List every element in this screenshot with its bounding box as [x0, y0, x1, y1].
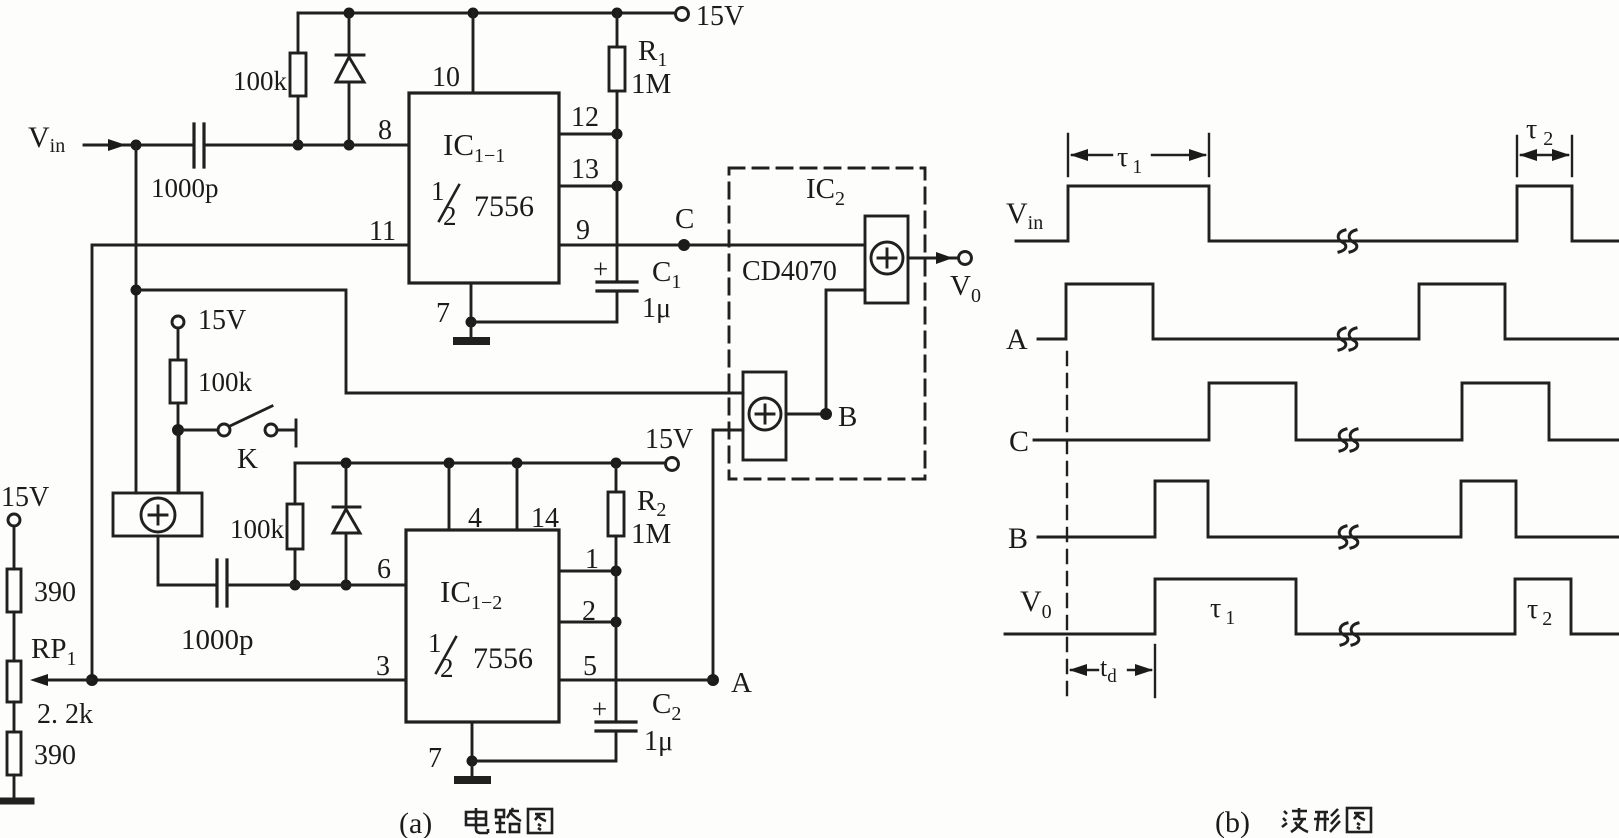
svg-text:τ2: τ2 [1527, 594, 1552, 630]
wire R5 to pin6 wire [294, 549, 297, 585]
wire RP1 wiper [38, 679, 92, 682]
wire rail2 to diode D2 [345, 463, 348, 507]
IC2 dashed package [729, 168, 925, 479]
IC U1a body [409, 93, 559, 283]
svg-text:15V: 15V [645, 424, 693, 455]
dimension tau1 arrows [1070, 149, 1088, 161]
node pin2/C2 [611, 617, 622, 628]
dimension td arrows [1069, 664, 1087, 676]
pin 10 wire [472, 13, 475, 93]
svg-text:390: 390 [34, 577, 76, 608]
svg-text:2: 2 [440, 653, 454, 683]
svg-text:100k: 100k [233, 66, 288, 96]
wire U2b output [786, 413, 826, 416]
svg-text:(b): (b) [1215, 806, 1250, 838]
wire rail2 to 100k R5 [294, 463, 297, 504]
wire node to gate U2c input [177, 430, 180, 493]
node rail2/pin4 [444, 458, 455, 469]
svg-text:4: 4 [468, 503, 482, 534]
wire pin7 to C2 bottom [472, 731, 616, 761]
svg-text:9: 9 [576, 215, 590, 246]
node pin7/C2 ground wire [467, 756, 478, 767]
svg-text:τ1: τ1 [1117, 142, 1142, 178]
svg-text:14: 14 [531, 503, 559, 534]
node pin1/R2 [611, 566, 622, 577]
svg-text:C2: C2 [652, 688, 681, 725]
terminal 15V supply 2 [666, 458, 679, 471]
svg-text:K: K [237, 443, 258, 475]
svg-text:B: B [838, 401, 857, 433]
svg-text:8: 8 [378, 115, 392, 146]
svg-text:R2: R2 [637, 485, 666, 521]
IC U1b body [406, 530, 559, 722]
svg-text:+: + [592, 694, 607, 724]
arrow U2a output [936, 252, 953, 264]
wire U2c input from K [178, 430, 181, 493]
xor gate U2b symbol [749, 398, 781, 430]
svg-text:τ2: τ2 [1526, 114, 1553, 150]
potentiometer RP1 [7, 661, 21, 702]
svg-text:C: C [1009, 425, 1029, 458]
capacitor 1000p (C4) [217, 560, 227, 606]
resistor R4 100k [170, 360, 186, 403]
caption 电路图 hand glyphs [466, 808, 552, 833]
capacitor C1 [597, 282, 637, 291]
waveform B break [1339, 526, 1358, 548]
node rail/R1 [612, 8, 623, 19]
wire pin 6 [227, 584, 406, 587]
diode D2 [333, 507, 360, 533]
dimension tau1 ticks [1068, 134, 1209, 176]
node pin7/C1 ground wire [466, 317, 477, 328]
svg-text:2: 2 [582, 596, 596, 627]
svg-text:13: 13 [571, 154, 599, 185]
xor gate U2c body [113, 493, 202, 536]
node switch K junction [172, 424, 184, 436]
node B [820, 408, 832, 420]
arrow Vin [108, 139, 126, 151]
svg-text:1000p: 1000p [181, 624, 254, 656]
svg-text:100k: 100k [230, 514, 285, 544]
pin 14 wire [516, 463, 519, 530]
svg-text:Vin: Vin [28, 121, 65, 157]
svg-text:7556: 7556 [474, 190, 534, 223]
resistor R3 100k [290, 53, 306, 96]
terminal 15V (RP1 divider) [8, 514, 20, 526]
dimension tau2 line [1521, 154, 1568, 156]
wire R1 to C1 [616, 91, 619, 282]
pin 2 wire [559, 621, 616, 624]
svg-text:2. 2k: 2. 2k [37, 699, 93, 730]
node pin12/R1 [612, 129, 623, 140]
svg-text:3: 3 [376, 651, 390, 682]
waveform V0 break [1340, 623, 1359, 645]
dimension td lines [1071, 669, 1151, 671]
node rail/diode D1 [344, 8, 355, 19]
svg-text:1: 1 [585, 544, 599, 575]
wire node B to U2a input [826, 290, 865, 414]
svg-text:11: 11 [369, 216, 396, 247]
wire U2c output to cap 1000p [158, 536, 217, 585]
pin 1 wire [559, 570, 616, 573]
wire rail to 100k R3 [297, 13, 300, 53]
svg-text:IC1−2: IC1−2 [440, 574, 502, 614]
node R5/pin6 wire [290, 580, 301, 591]
node RP1 wiper junction [86, 674, 98, 686]
wire pin7 to C1 bottom [471, 291, 617, 322]
node C [678, 239, 690, 251]
xor gate U2c symbol [141, 498, 175, 532]
wire 15V top rail [298, 12, 675, 15]
svg-text:5: 5 [583, 651, 597, 682]
resistor R2 [608, 492, 624, 536]
svg-text:6: 6 [377, 554, 391, 585]
wire 15V to 100k R4 [177, 328, 180, 360]
arrow RP1 wiper [30, 674, 48, 686]
svg-text:R1: R1 [638, 35, 667, 71]
capacitor 1000p (C3) [194, 124, 204, 167]
pin 12 wire [559, 133, 617, 136]
pin 7 wire (U1b) [471, 722, 474, 761]
wire R2 to C2 [615, 536, 618, 722]
xor gate U2a body [865, 216, 908, 303]
node rail2/diode D2 [341, 458, 352, 469]
label 1/2 7556 (U1b) [428, 628, 533, 683]
wire RP1 to 390 bottom [13, 702, 16, 732]
node Vin junction [131, 140, 142, 151]
svg-text:A: A [1006, 323, 1028, 356]
svg-text:1μ: 1μ [642, 293, 671, 324]
capacitor C2 [596, 722, 636, 731]
node rail2/R2 [611, 458, 622, 469]
node 100k/pin8 wire [293, 140, 304, 151]
wire rail to R1 [616, 13, 619, 47]
svg-text:100k: 100k [198, 367, 253, 397]
node diode/pin8 wire [344, 140, 355, 151]
pin 7 wire (U1a) [470, 283, 473, 322]
svg-text:IC1−1: IC1−1 [443, 127, 505, 167]
node pin13/C1 [612, 181, 623, 192]
waveform C trace [1034, 383, 1619, 440]
dimension td tick [1154, 645, 1156, 697]
node D2/pin6 wire [341, 580, 352, 591]
svg-text:(a): (a) [399, 807, 432, 838]
wire rail2 to R2 [615, 463, 618, 492]
wire cap to pin 8 [204, 144, 409, 147]
wire pin3 to RP1 junction [92, 679, 406, 682]
svg-text:CD4070: CD4070 [742, 256, 837, 287]
wire node to lower XOR input [136, 290, 743, 393]
wire diode D2 to pin6 wire [345, 533, 348, 585]
svg-text:7: 7 [428, 743, 442, 774]
svg-text:V0: V0 [950, 270, 981, 307]
waveform A break [1338, 328, 1357, 350]
terminal V0 [959, 252, 972, 265]
svg-text:15V: 15V [1, 482, 49, 513]
wire 15V rail 2 [295, 462, 665, 465]
wire 100k bottom to pin8 line [297, 96, 300, 145]
wire diode D1 to pin8 wire [348, 82, 351, 145]
resistor 390 top [7, 569, 21, 612]
ground (U1a pin7) [470, 322, 473, 338]
node Vin branch / crosswire [131, 285, 142, 296]
wire R4 to switch node [177, 403, 180, 430]
svg-text:V0: V0 [1020, 585, 1052, 623]
resistor 390 bottom [7, 732, 21, 775]
svg-text:Vin: Vin [1006, 197, 1043, 234]
svg-text:15V: 15V [696, 1, 744, 32]
svg-text:2: 2 [443, 201, 457, 231]
svg-text:1μ: 1μ [644, 726, 673, 757]
svg-text:td: td [1100, 653, 1117, 687]
wire 390 to RP1 [13, 612, 16, 661]
svg-text:10: 10 [432, 62, 460, 93]
terminal 15V (K branch) [172, 316, 184, 328]
dimension tau2 arrows [1519, 149, 1537, 161]
svg-text:B: B [1008, 522, 1028, 555]
svg-text:7: 7 [436, 298, 450, 329]
svg-text:390: 390 [34, 740, 76, 771]
wire pin5 to node A [559, 679, 713, 682]
xor gate U2b body [743, 372, 786, 460]
node rail/pin10 [468, 8, 479, 19]
waveform Vin trace [1016, 186, 1619, 241]
pin 9 wire to XOR U2a [559, 244, 865, 247]
svg-text:1M: 1M [631, 68, 671, 100]
resistor R1 [609, 47, 625, 91]
svg-text:15V: 15V [198, 305, 246, 336]
svg-text:RP1: RP1 [31, 633, 76, 670]
svg-text:τ1: τ1 [1210, 593, 1235, 629]
wire Vin branch down to gate U2c [135, 145, 138, 493]
svg-text:C1: C1 [652, 256, 681, 293]
xor gate U2a symbol [871, 242, 903, 274]
wire rail to diode D1 [348, 13, 351, 55]
waveform Vin break [1338, 230, 1357, 252]
svg-text:A: A [731, 667, 752, 699]
diode D1 [336, 55, 364, 82]
svg-text:12: 12 [571, 102, 599, 133]
switch K [178, 429, 217, 432]
waveform V0 trace [1005, 579, 1619, 634]
ground (RP1 divider) [13, 775, 16, 799]
label 1/2 7556 (U1a) [431, 176, 534, 231]
wire U2b input from A [713, 430, 743, 680]
svg-text:IC2: IC2 [806, 173, 845, 210]
waveform C break [1339, 429, 1358, 451]
pin 4 wire [448, 463, 451, 530]
svg-text:1M: 1M [631, 518, 671, 550]
svg-text:7556: 7556 [473, 642, 533, 675]
svg-text:C: C [675, 203, 694, 235]
node rail2/pin14 [512, 458, 523, 469]
caption 波形图 hand glyphs [1282, 808, 1371, 832]
svg-text:1000p: 1000p [151, 173, 219, 203]
wire Vin input [84, 144, 194, 147]
dimension tau2 ticks [1517, 136, 1572, 176]
dimension tau1 lines [1072, 154, 1205, 156]
waveform B trace [1038, 481, 1619, 537]
node A [707, 674, 719, 686]
pin 13 wire [559, 185, 617, 188]
terminal 15V supply top [676, 8, 689, 21]
ground (U1b pin7) [471, 761, 474, 777]
resistor R5 100k [287, 504, 303, 549]
wire 15V to 390 top [13, 526, 16, 569]
pin 11 wire [92, 245, 409, 680]
dashed reference line t=0 [1066, 352, 1068, 697]
svg-text:+: + [593, 254, 608, 284]
wire U2a output [908, 257, 956, 260]
waveform A trace [1038, 284, 1619, 339]
